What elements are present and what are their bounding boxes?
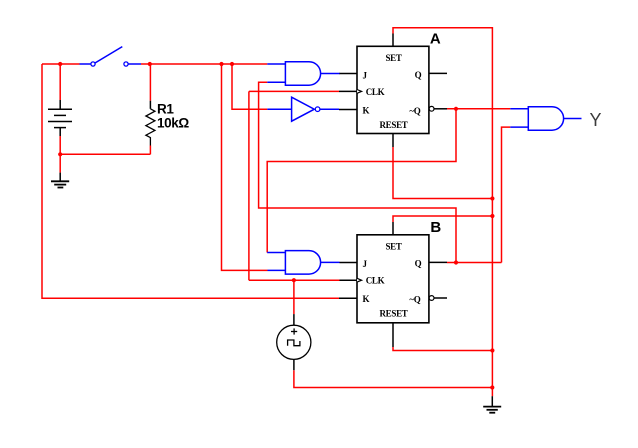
svg-text:SET: SET xyxy=(385,53,401,63)
svg-text:B: B xyxy=(430,219,441,236)
svg-text:K: K xyxy=(363,106,370,116)
svg-text:Q: Q xyxy=(415,70,422,80)
svg-text:A: A xyxy=(430,30,441,47)
svg-text:RESET: RESET xyxy=(379,120,407,130)
svg-text:SET: SET xyxy=(385,242,401,252)
svg-text:R1: R1 xyxy=(157,102,174,117)
svg-text:Q: Q xyxy=(415,258,422,268)
svg-text:10kΩ: 10kΩ xyxy=(157,115,189,130)
svg-text:~Q: ~Q xyxy=(409,106,420,116)
svg-text:RESET: RESET xyxy=(379,309,407,319)
svg-text:K: K xyxy=(363,294,370,304)
svg-text:~Q: ~Q xyxy=(409,294,420,304)
svg-text:Y: Y xyxy=(590,110,602,130)
svg-text:CLK: CLK xyxy=(366,276,385,286)
svg-text:CLK: CLK xyxy=(366,87,385,97)
